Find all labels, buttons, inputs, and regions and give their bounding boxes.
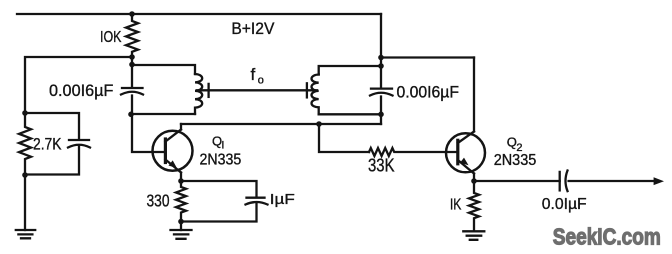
node junction dot bias top [22, 110, 28, 116]
wire f_o coupling line [197, 89, 317, 91]
transistor Q1 [153, 124, 193, 181]
resistor 33K [369, 148, 458, 156]
svg-text:f: f [251, 65, 256, 84]
capacitor 0.0016uF right (tank) [371, 87, 392, 89]
node junction dot 330 bottom [178, 219, 184, 225]
node junction dot left tank top [129, 62, 135, 68]
wire 33K branch down [319, 124, 369, 152]
svg-text:IOK: IOK [100, 29, 122, 46]
svg-text:330: 330 [147, 191, 170, 211]
svg-text:0.00I6µF: 0.00I6µF [397, 83, 460, 102]
node junction dot Q1 emitter [178, 178, 184, 184]
svg-text:IK: IK [450, 197, 462, 214]
wire right tank bottom [319, 113, 381, 115]
capacitor 0.0016uF left (tank) [122, 87, 143, 89]
ground (bias network) [24, 175, 26, 230]
resistor 10K [126, 14, 138, 57]
wire left tank bottom [131, 113, 195, 115]
node junction dot +12V feed [378, 55, 384, 61]
svg-text:2.7K: 2.7K [33, 135, 62, 154]
wire bias capacitor branch bottom [25, 146, 79, 175]
resistor 1K [469, 181, 479, 231]
wire 1uF capacitor loop [181, 181, 257, 222]
capacitor coupling right (plate bar) [306, 83, 308, 97]
svg-text:IµF: IµF [270, 191, 295, 208]
inductor left tank coil [195, 74, 202, 114]
wire left tank top [132, 65, 195, 74]
resistor 330 [176, 181, 186, 222]
svg-text:0.0IµF: 0.0IµF [542, 196, 587, 213]
transistor Q2 [446, 132, 485, 182]
ground (under 1K) [463, 231, 484, 240]
svg-text:2N335: 2N335 [200, 151, 242, 168]
inductor right tank coil [312, 75, 319, 115]
node junction dot collector line / 33K branch [316, 121, 322, 127]
capacitor coupling left (plate bar) [207, 84, 209, 97]
node junction dot 10K bottom [129, 54, 135, 60]
wire Q2 collector riser [473, 58, 475, 132]
wire B+12V top rail [17, 13, 381, 15]
svg-text:SeekIC.com: SeekIC.com [553, 224, 661, 250]
svg-text:B+I2V: B+I2V [231, 20, 274, 38]
wire right tank top [319, 66, 381, 75]
node junction dot right tank top [378, 63, 384, 69]
node junction dot bias bottom [22, 172, 28, 178]
node junction dot left tank bottom [128, 112, 134, 118]
wire from 10K bottom node left to bias network [25, 57, 132, 113]
wire rail corner down to +12V distribution [380, 14, 382, 57]
node junction dot right tank bottom [378, 112, 384, 118]
ground (under Q1 emitter) [180, 222, 182, 231]
wire right tank +12V feed [381, 56, 474, 58]
svg-text:I: I [221, 140, 224, 152]
resistor 2.7K [19, 113, 31, 175]
node junction dot Q2 emitter [471, 178, 477, 184]
wire Q1 collector line to right tank [181, 123, 381, 125]
capacitor bias (parallel with 2.7K) [69, 139, 89, 141]
capacitor 1uF [247, 197, 265, 199]
wire left tank node vertical [132, 57, 165, 152]
wire output after cap with arrow [569, 180, 654, 182]
svg-text:33K: 33K [368, 156, 395, 176]
capacitor 0.01uF output [559, 172, 561, 191]
wire bias capacitor branch top [25, 113, 79, 139]
wire right tank vertical / cap leads [380, 58, 382, 125]
wire output line [474, 180, 560, 182]
svg-text:2N335: 2N335 [494, 152, 537, 169]
svg-text:0.00I6µF: 0.00I6µF [49, 81, 113, 100]
node junction dot rail / 10K top [129, 11, 135, 17]
svg-text:o: o [258, 75, 264, 87]
